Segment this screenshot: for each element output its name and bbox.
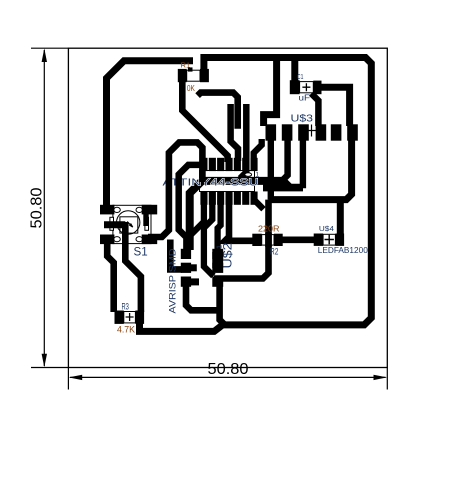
wire U$3 pad1 down to y200	[268, 138, 274, 200]
header U$2 AVRISP pads	[168, 242, 235, 313]
wire y200 down to U$4.right	[337, 200, 344, 236]
dimension extension line bottom outline right leg	[386, 368, 388, 390]
board outline	[68, 48, 387, 367]
arrow right	[374, 375, 388, 380]
pushbutton S1	[100, 205, 157, 259]
wire r3c1 stub right	[188, 278, 199, 285]
horizontal dimension line	[70, 376, 386, 378]
svg-text:LEDFAB1200: LEDFAB1200	[318, 246, 369, 255]
wire band B step	[263, 181, 303, 188]
wire main top: R1.right to top-right corner, right side down, bottom to R3.right	[140, 58, 372, 332]
wire SOIC b2 to AVRISP r2c2	[204, 200, 214, 276]
wire SOIC b1 to AVRISP r1c1	[190, 200, 204, 250]
svg-text:1: 1	[256, 172, 260, 179]
svg-text:R2: R2	[270, 246, 278, 256]
wire R1.right bar and stub B down	[198, 93, 238, 129]
dimension extension line bottom outline left leg	[67, 368, 69, 390]
wire outer loop left: S1 up to R1.left	[107, 61, 194, 208]
IC U$3 pads	[266, 112, 358, 140]
wire through R2 body down to r3 band	[214, 200, 269, 279]
wire SOIC b4 to R2.left	[225, 200, 253, 241]
svg-text:50.80: 50.80	[208, 361, 249, 378]
svg-text:U$3: U$3	[291, 112, 314, 124]
via ellipse near t6 band bend	[245, 173, 252, 177]
wire column A down to SOIC pin t5	[231, 104, 238, 161]
dimension extension line top-left	[31, 47, 68, 49]
wire S1 arm	[104, 221, 125, 228]
svg-text:U$4: U$4	[319, 224, 334, 233]
wire SOIC t7 diagonal up to U$3 pad1	[254, 139, 262, 160]
capacitor C1	[290, 72, 322, 103]
resistor R2	[252, 225, 282, 257]
wire U$3 pad6 down to horizontal y200	[269, 139, 352, 200]
wire r2c1 stub right	[190, 264, 197, 271]
IC U1 ATTINY44 SOIC-14	[200, 158, 258, 205]
wire C1.right to U$3 pad6	[319, 87, 350, 126]
svg-text:AVRISP SMD: AVRISP SMD	[168, 248, 179, 313]
dimension extension line bottom-left	[31, 367, 68, 369]
wire outer hook: S1 area up around to SOIC t1	[148, 142, 202, 237]
wire column C through SOIC pin t6 to band	[240, 104, 246, 178]
svg-text:R3: R3	[122, 301, 129, 311]
wire S1 center down to R3.right	[125, 222, 141, 312]
wire r1c2-r2c2 column	[212, 252, 223, 268]
wire b7 diagonal to y200 corner	[254, 200, 264, 210]
wire inner hook band to AVRISP r1c1	[179, 165, 202, 251]
svg-text:uF: uF	[299, 94, 311, 103]
wire S1 bottom-left down to R3.left	[107, 242, 114, 312]
wire top to C1.left	[291, 60, 298, 84]
wire R2.right to U$4.left	[281, 237, 316, 244]
wire band A through SOIC	[190, 181, 286, 250]
wire top to U$3 pad1 elbow	[264, 60, 277, 126]
svg-text:R1: R1	[181, 60, 191, 69]
wire R1.left down diagonal to SOIC t4	[182, 70, 227, 163]
svg-text:4.7K: 4.7K	[117, 325, 135, 335]
arrow up	[42, 48, 47, 62]
vertical dimension line	[43, 50, 45, 366]
wire S1 top-right stub	[143, 212, 148, 226]
wire through-R2 vertical overlay	[265, 233, 272, 247]
svg-text:0K: 0K	[187, 83, 195, 93]
resistor R1	[178, 60, 209, 93]
svg-text:1: 1	[215, 245, 224, 249]
wire V1 continue down to AVRISP r2c1	[170, 240, 182, 270]
svg-text:220R: 220R	[258, 225, 280, 234]
resistor R3	[115, 301, 145, 334]
wire SOIC b3 to AVRISP r1c2	[218, 200, 221, 251]
svg-text:50.80: 50.80	[29, 187, 46, 228]
wire r3c2 down to bottom trace	[220, 284, 225, 325]
svg-text:S1: S1	[134, 244, 149, 258]
wire C1.left diagonal to U$3 pad4	[311, 94, 318, 127]
wire U-hook r3c1 down to bottom vertical	[186, 284, 217, 310]
wire U$3 pad2 down to band	[282, 138, 288, 181]
svg-text:C1: C1	[297, 72, 303, 81]
arrow down	[42, 354, 47, 368]
wire U$3 pad3 down to band B	[300, 138, 306, 188]
arrow left	[69, 375, 83, 380]
LED U$4	[314, 224, 369, 255]
